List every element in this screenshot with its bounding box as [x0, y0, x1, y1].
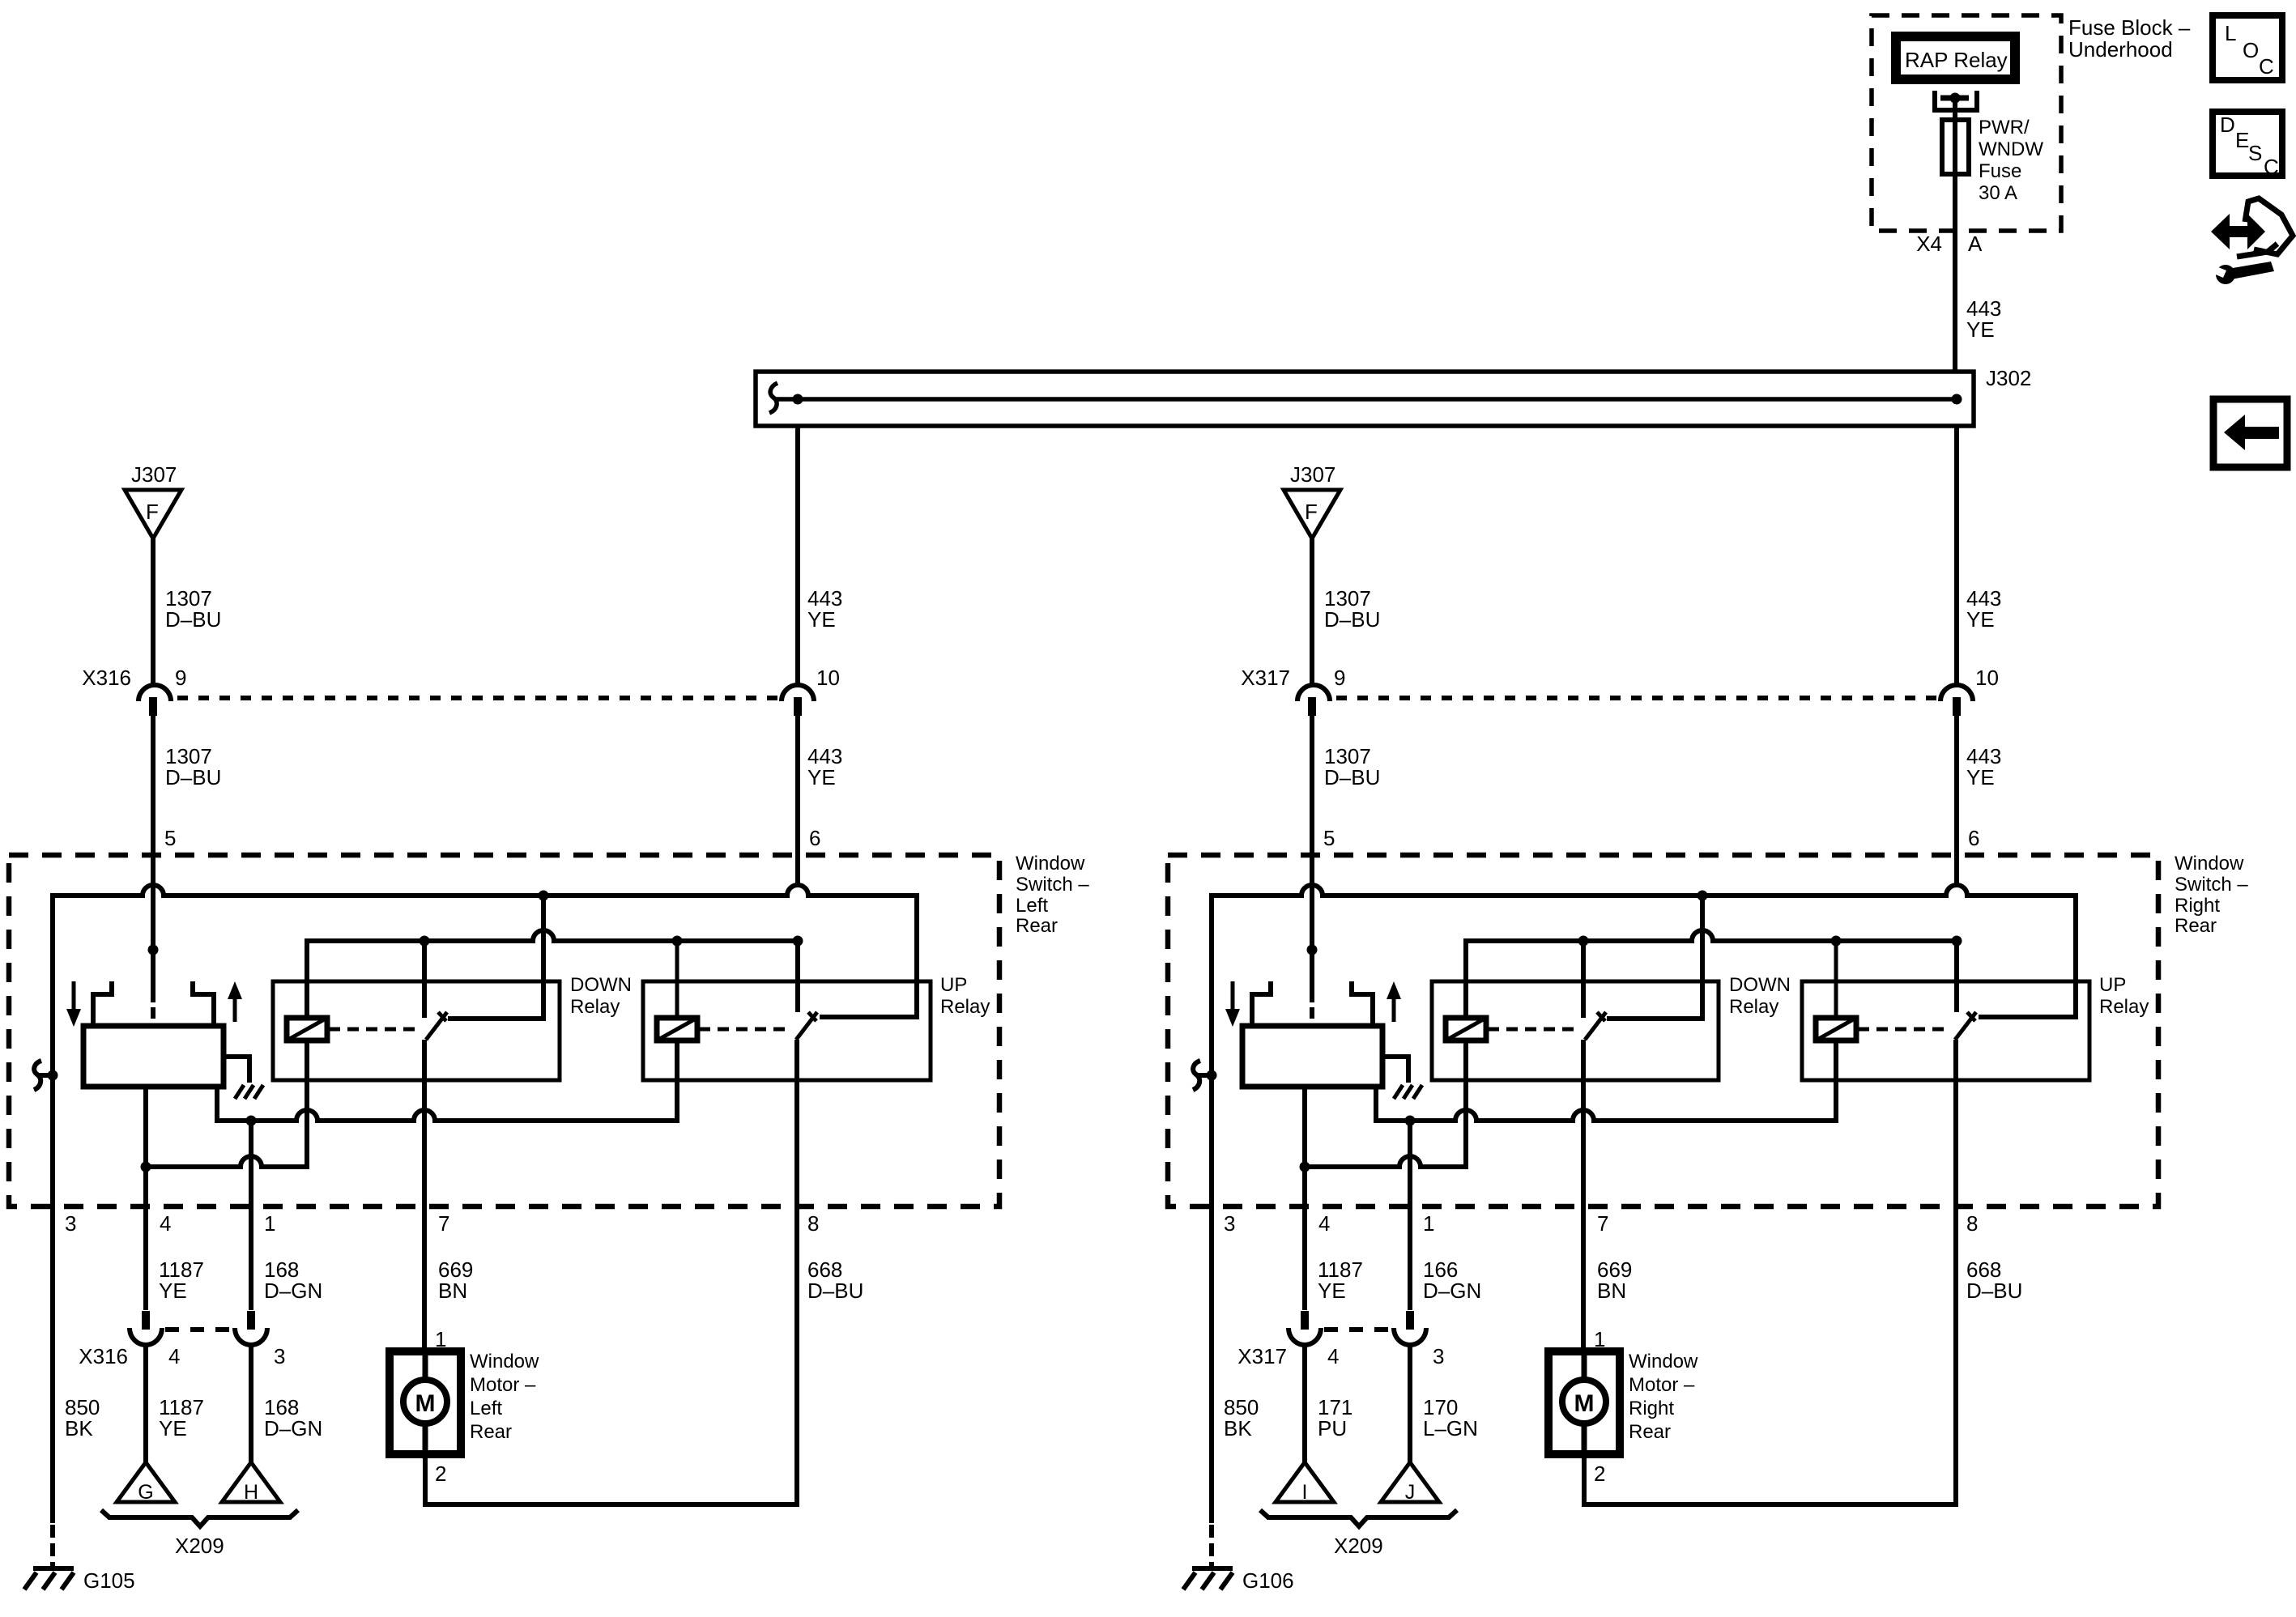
DOWN relay movable contact — [426, 1012, 447, 1040]
svg-text:Window: Window — [1629, 1351, 1698, 1372]
wire DOWN relay contact to line B — [1581, 941, 1586, 1018]
svg-text:RAP Relay: RAP Relay — [1905, 48, 2008, 72]
power triangle J307 (Right) — [1284, 490, 1340, 538]
DOWN relay coil — [305, 941, 309, 1018]
svg-text:C: C — [2264, 155, 2279, 179]
wire 443 YE J302 to right pin 10 — [1954, 426, 1959, 685]
fuse block underhood dashed box — [1872, 15, 2061, 231]
svg-text:D–BU: D–BU — [1324, 765, 1380, 789]
switch ground tap wire — [1382, 1057, 1408, 1083]
svg-text:Fuse Block –: Fuse Block – — [2068, 15, 2191, 40]
splice triangle J — [1381, 1462, 1439, 1502]
svg-text:D–BU: D–BU — [165, 765, 221, 789]
connector X316 pin 10 — [782, 685, 814, 701]
svg-text:YE: YE — [159, 1279, 187, 1303]
wire 443 YE from J302 bus to pin 10 — [1954, 428, 1959, 685]
svg-text:Motor –: Motor – — [470, 1374, 536, 1396]
svg-text:J: J — [1405, 1481, 1416, 1504]
connector X317 pin 10 — [1940, 685, 1973, 701]
svg-text:D–GN: D–GN — [264, 1416, 322, 1440]
svg-text:BN: BN — [438, 1279, 467, 1303]
svg-text:Relay: Relay — [940, 996, 990, 1018]
svg-text:3: 3 — [65, 1211, 76, 1236]
svg-text:YE: YE — [1966, 607, 1995, 632]
wire coil feed line B with crossover arc — [1466, 930, 1957, 1018]
wire 168 to splice H — [249, 1344, 253, 1462]
window switch rocker body — [1242, 1026, 1382, 1087]
J302 inner wire — [774, 397, 1957, 402]
dashed ground wire 850 BK to G106 — [1209, 1525, 1214, 1566]
node line B to DOWN relay contact wire — [1578, 936, 1589, 947]
J302 splice bus outline — [756, 372, 1974, 426]
svg-text:C: C — [2259, 54, 2274, 79]
node ground hook junction — [1207, 1070, 1217, 1081]
svg-text:YE: YE — [1318, 1279, 1346, 1303]
connector X317 pin 9 — [1297, 685, 1330, 701]
svg-text:Right: Right — [1629, 1398, 1674, 1419]
svg-text:6: 6 — [809, 826, 820, 850]
svg-text:Left: Left — [1016, 895, 1048, 917]
DOWN relay actuating dashed link — [329, 1028, 420, 1032]
svg-text:WNDW: WNDW — [1979, 138, 2043, 160]
UP relay movable contact — [1955, 1012, 1976, 1040]
svg-text:7: 7 — [1597, 1211, 1608, 1236]
svg-text:1: 1 — [1423, 1211, 1434, 1236]
svg-text:6: 6 — [1968, 826, 1979, 850]
svg-text:D–BU: D–BU — [1966, 1279, 2022, 1303]
node J302 to right circuit — [1952, 394, 1962, 405]
svg-text:YE: YE — [1966, 317, 1995, 342]
svg-text:9: 9 — [1334, 666, 1345, 690]
dashed connector line X316 pins 9-10 — [177, 696, 778, 700]
switch ground tap wire — [224, 1057, 249, 1083]
switch DOWN direction arrow — [72, 981, 76, 1011]
svg-text:J307: J307 — [131, 462, 177, 487]
RAP relay box — [1896, 36, 2015, 79]
switch left contact — [1252, 981, 1271, 1026]
svg-text:8: 8 — [1966, 1211, 1978, 1236]
svg-text:X209: X209 — [175, 1534, 224, 1558]
svg-text:Left: Left — [470, 1398, 502, 1419]
svg-text:X317: X317 — [1241, 666, 1290, 690]
svg-text:BN: BN — [1597, 1279, 1626, 1303]
wire DOWN coil to pin 4 with crossover arc — [1305, 1040, 1466, 1167]
UP relay outline box — [1802, 981, 2089, 1080]
svg-text:D–GN: D–GN — [264, 1279, 322, 1303]
svg-text:D–GN: D–GN — [1423, 1279, 1481, 1303]
UP relay movable contact — [796, 1012, 817, 1040]
node ground hook junction — [48, 1070, 58, 1081]
splice triangle H — [222, 1462, 280, 1502]
wire 1307 D-BU from X317 to switch pin 5 — [1310, 716, 1314, 885]
svg-text:4: 4 — [1318, 1211, 1330, 1236]
node junction on line A feeding DOWN relay contact — [539, 891, 549, 901]
wire 443 YE from J302 bus to pin 10 — [795, 428, 800, 685]
svg-text:D: D — [2220, 113, 2235, 137]
wire DOWN relay fixed contact feed — [448, 896, 543, 1019]
switch right contact — [193, 981, 214, 1026]
wire 668 D-BU pin 8 UP relay to motor pin 2 — [1584, 1040, 1956, 1504]
dashed connector line X317 pins 9-10 — [1336, 696, 1937, 700]
svg-text:BK: BK — [65, 1416, 93, 1440]
power triangle J307 (Left) — [125, 490, 181, 538]
svg-text:2: 2 — [1594, 1462, 1605, 1486]
svg-text:H: H — [244, 1481, 258, 1504]
window motor Left rear — [390, 1351, 461, 1454]
splice triangle G — [117, 1462, 175, 1502]
window motor Right rear — [1548, 1351, 1620, 1454]
wire UP coil to switch common with crossover arcs — [1376, 1040, 1836, 1121]
wire 1187 YE pin 4 to X317 — [1302, 1087, 1307, 1310]
svg-text:S: S — [2248, 141, 2262, 165]
svg-text:G105: G105 — [83, 1568, 135, 1593]
wire 669 BN pin 7 to window motor — [1581, 1040, 1586, 1351]
svg-text:YE: YE — [807, 607, 836, 632]
svg-text:A: A — [1968, 232, 1983, 256]
svg-text:Relay: Relay — [2099, 996, 2149, 1018]
DOWN relay actuating dashed link — [1488, 1028, 1579, 1032]
svg-text:I: I — [1302, 1481, 1308, 1504]
switch UP direction arrow — [233, 998, 237, 1022]
wire 1307 D-BU from J307 to X316 pin 9 — [151, 538, 155, 684]
node pin 1 wire junction — [1405, 1116, 1416, 1126]
connector X209 brace — [101, 1510, 298, 1526]
svg-text:YE: YE — [807, 765, 836, 789]
svg-text:4: 4 — [168, 1344, 180, 1368]
svg-text:G: G — [138, 1481, 153, 1504]
wire from RAP relay through fuse — [1953, 98, 1957, 372]
ground G105 — [33, 1566, 74, 1571]
wire 850 BK pin 3 vertical — [1209, 893, 1214, 1523]
svg-text:5: 5 — [1323, 826, 1335, 850]
DESC navigation box — [2213, 112, 2282, 176]
window switch Right rear dashed outline box — [1168, 855, 2158, 1206]
svg-text:9: 9 — [175, 666, 186, 690]
svg-text:BK: BK — [1224, 1416, 1252, 1440]
node line B to UP relay coil — [672, 936, 683, 947]
node J302 to left circuit — [793, 394, 803, 405]
service icon arrow outline — [2237, 198, 2293, 257]
connector X209 brace — [1260, 1510, 1457, 1526]
service icon double arrow — [2211, 214, 2265, 249]
UP relay actuating dashed link — [1858, 1028, 1949, 1032]
svg-text:E: E — [2235, 128, 2249, 152]
svg-text:7: 7 — [438, 1211, 449, 1236]
svg-text:L: L — [2225, 21, 2236, 45]
wire 1187 YE pin 4 to X316 — [143, 1087, 148, 1310]
svg-text:J307: J307 — [1290, 462, 1335, 487]
svg-text:D–BU: D–BU — [1324, 607, 1380, 632]
hook symbol on ground wire — [1193, 1061, 1212, 1090]
back arrow box — [2213, 399, 2287, 467]
chassis ground symbol at switch — [235, 1085, 263, 1099]
svg-text:J302: J302 — [1986, 366, 2031, 390]
wire top feed line A with crossover arcs — [1212, 885, 2076, 1017]
hook symbol at J302 left end — [769, 383, 777, 413]
wire 1187 YE to splice G — [143, 1344, 148, 1462]
svg-text:M: M — [1574, 1390, 1595, 1417]
wire UP relay stationary contact from pin 6 — [1954, 941, 1959, 1012]
dashed ground wire 850 BK to G105 — [50, 1525, 55, 1566]
UP relay actuating dashed link — [699, 1028, 790, 1032]
svg-text:D–BU: D–BU — [807, 1279, 863, 1303]
connector X316 pin 3 bottom — [247, 1311, 255, 1330]
wire 443 YE from X317 pin 10 to switch pin 6 — [1954, 716, 1959, 885]
RAP relay output terminal — [1935, 91, 1977, 110]
DOWN relay outline box — [273, 981, 560, 1080]
node pin 1 wire junction — [246, 1116, 257, 1126]
svg-text:PWR/: PWR/ — [1979, 117, 2030, 138]
svg-text:Rear: Rear — [1629, 1421, 1671, 1443]
switch UP direction arrow — [1392, 998, 1396, 1022]
svg-text:Switch –: Switch – — [1016, 874, 1089, 896]
wire DOWN coil to pin 4 with crossover arc — [146, 1040, 307, 1167]
wire 668 D-BU pin 8 UP relay to motor pin 2 — [425, 1040, 797, 1504]
UP relay outline box — [643, 981, 931, 1080]
svg-text:F: F — [146, 500, 159, 524]
svg-text:3: 3 — [1433, 1344, 1444, 1368]
svg-text:UP: UP — [2099, 974, 2126, 996]
wire UP relay stationary contact from pin 6 — [795, 941, 800, 1012]
UP relay coil — [1834, 941, 1838, 1018]
svg-text:Motor –: Motor – — [1629, 1374, 1695, 1396]
svg-text:DOWN: DOWN — [1729, 974, 1791, 996]
switch right contact — [1352, 981, 1373, 1026]
svg-text:M: M — [415, 1390, 436, 1417]
svg-text:UP: UP — [940, 974, 967, 996]
svg-text:2: 2 — [435, 1462, 446, 1486]
svg-text:X317: X317 — [1237, 1344, 1287, 1368]
switch DOWN direction arrow — [1231, 981, 1235, 1011]
DOWN relay outline box — [1432, 981, 1719, 1080]
svg-text:30 A: 30 A — [1979, 182, 2017, 204]
svg-text:Underhood: Underhood — [2068, 37, 2173, 62]
svg-text:Relay: Relay — [1729, 996, 1778, 1018]
switch common feed wire — [1310, 885, 1314, 1002]
connector X317 pin 4 bottom — [1301, 1311, 1309, 1330]
svg-text:F: F — [1305, 500, 1318, 524]
connector X317 pin 3 bottom — [1406, 1311, 1414, 1330]
svg-text:Rear: Rear — [2175, 915, 2217, 937]
LOC navigation box — [2213, 15, 2282, 80]
splice triangle I — [1276, 1462, 1334, 1502]
dashed connector line pins 4-3 — [1324, 1327, 1391, 1332]
svg-text:YE: YE — [1966, 765, 1995, 789]
wire 850 BK pin 3 vertical — [50, 893, 55, 1523]
svg-text:10: 10 — [1975, 666, 1999, 690]
wire 170 to splice J — [1408, 1344, 1412, 1462]
wire DOWN relay contact to line B — [422, 941, 427, 1018]
svg-text:Right: Right — [2175, 895, 2220, 917]
svg-text:X4: X4 — [1916, 232, 1942, 256]
connector X316 pin 9 — [138, 685, 171, 701]
node junction on line A feeding DOWN relay contact — [1698, 891, 1708, 901]
svg-text:Rear: Rear — [1016, 915, 1058, 937]
svg-text:YE: YE — [159, 1416, 187, 1440]
svg-text:4: 4 — [160, 1211, 171, 1236]
svg-text:8: 8 — [807, 1211, 819, 1236]
node line B to DOWN relay contact wire — [420, 936, 430, 947]
svg-text:Rear: Rear — [470, 1421, 512, 1443]
wire DOWN relay fixed contact feed — [1607, 896, 1702, 1019]
wire 171 PU to splice I — [1302, 1344, 1307, 1462]
svg-text:Window: Window — [2175, 853, 2244, 874]
svg-text:Window: Window — [1016, 853, 1085, 874]
window switch rocker body — [83, 1026, 224, 1087]
svg-text:G106: G106 — [1242, 1568, 1294, 1593]
chassis ground symbol at switch — [1394, 1085, 1422, 1099]
node pin 4 wire to DOWN coil — [1300, 1162, 1310, 1172]
node line B to pin 6 feed — [793, 936, 803, 947]
hook symbol on ground wire — [34, 1061, 53, 1090]
svg-text:O: O — [2243, 38, 2259, 62]
UP relay coil — [675, 941, 679, 1018]
connector X316 pin 4 bottom — [142, 1311, 150, 1330]
wire 1307 D-BU from X316 to switch pin 5 — [151, 716, 155, 885]
svg-text:Window: Window — [470, 1351, 539, 1372]
svg-text:10: 10 — [816, 666, 840, 690]
node switch common — [148, 945, 159, 955]
wire coil feed line B with crossover arc — [307, 930, 798, 1018]
switch left contact — [93, 981, 112, 1026]
svg-text:X316: X316 — [79, 1344, 128, 1368]
svg-text:DOWN: DOWN — [570, 974, 632, 996]
node pin 4 wire to DOWN coil — [141, 1162, 151, 1172]
window switch Left rear dashed outline box — [9, 855, 999, 1206]
svg-text:X209: X209 — [1334, 1534, 1383, 1558]
svg-text:D–BU: D–BU — [165, 607, 221, 632]
service icon wrench — [2216, 265, 2235, 284]
wire top feed line A with crossover arcs — [53, 885, 917, 1017]
DOWN relay coil — [1464, 941, 1468, 1018]
svg-text:4: 4 — [1327, 1344, 1339, 1368]
wire 166 D&#8211;GN pin 1 to X317 — [1408, 1121, 1412, 1310]
node switch common — [1307, 945, 1318, 955]
svg-text:X316: X316 — [82, 666, 131, 690]
dashed connector line pins 4-3 — [165, 1327, 232, 1332]
node line B to UP relay coil — [1831, 936, 1842, 947]
DOWN relay movable contact — [1585, 1012, 1606, 1040]
wire 168 D&#8211;GN pin 1 to X316 — [249, 1121, 253, 1310]
svg-text:Relay: Relay — [570, 996, 620, 1018]
wire 443 YE from X316 pin 10 to switch pin 6 — [795, 716, 800, 885]
wire 1307 D-BU from J307 to X317 pin 9 — [1310, 538, 1314, 684]
svg-text:3: 3 — [274, 1344, 285, 1368]
svg-text:PU: PU — [1318, 1416, 1347, 1440]
svg-text:Fuse: Fuse — [1979, 160, 2021, 182]
svg-text:5: 5 — [164, 826, 176, 850]
svg-text:Switch –: Switch – — [2175, 874, 2248, 896]
node line B to pin 6 feed — [1952, 936, 1962, 947]
svg-text:L–GN: L–GN — [1423, 1416, 1478, 1440]
wire UP coil to switch common with crossover arcs — [217, 1040, 677, 1121]
svg-text:3: 3 — [1224, 1211, 1235, 1236]
ground G106 — [1192, 1566, 1233, 1571]
svg-text:1: 1 — [264, 1211, 275, 1236]
wire 669 BN pin 7 to window motor — [422, 1040, 427, 1351]
switch common feed wire — [151, 885, 155, 1002]
fuse PWR/WNDW 30A — [1942, 120, 1969, 174]
